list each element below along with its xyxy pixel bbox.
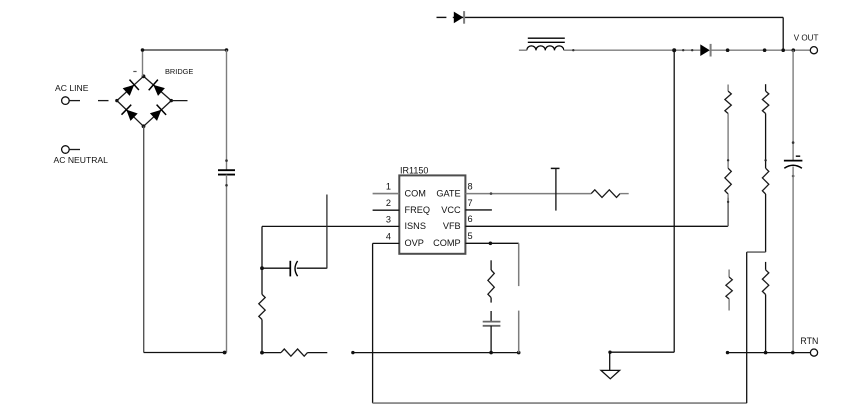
wire AC LINE stub: [69, 100, 80, 102]
pin 7 VCC stub: [465, 209, 492, 211]
wire Vout rail: [711, 49, 810, 51]
node ISNS junction: [260, 266, 264, 270]
pin 4 OVP wire: [373, 242, 400, 244]
svg-text:7: 7: [468, 198, 473, 208]
wire dash to bridge: [98, 100, 109, 102]
svg-text:IR1150: IR1150: [400, 166, 428, 176]
wire gate resistor stub: [620, 193, 629, 195]
capacitor C-comp: [490, 311, 492, 322]
polarity mark minus: [133, 71, 136, 73]
wire C-isns to stub: [297, 267, 327, 269]
svg-text:COM: COM: [405, 188, 426, 198]
op-amp U1 IR1150 box: [399, 175, 465, 253]
svg-text:3: 3: [386, 214, 391, 224]
svg-text:OVP: OVP: [405, 238, 424, 248]
wire DC+ rail: [143, 49, 227, 51]
wire COMP corner upper: [518, 243, 520, 286]
wire VFB corner: [727, 197, 729, 226]
svg-text:RTN: RTN: [800, 336, 818, 346]
svg-text:ISNS: ISNS: [405, 221, 426, 231]
wire bottom return rail: [373, 402, 747, 404]
wire top rail corner drop: [782, 17, 784, 50]
svg-text:GATE: GATE: [436, 188, 460, 198]
wire ISNS drop: [261, 226, 263, 268]
svg-text:AC NEUTRAL: AC NEUTRAL: [54, 155, 109, 165]
pin 3 ISNS wire: [262, 225, 399, 227]
svg-text:COMP: COMP: [433, 238, 461, 248]
wire cap to RTN: [792, 167, 794, 353]
resistor R-isns vertical: [261, 268, 263, 294]
pin 8 GATE wire: [465, 193, 591, 195]
resistor R-ovp2: [762, 168, 768, 194]
wire drain drop: [673, 50, 675, 352]
gate T electrode: [555, 169, 557, 211]
svg-text:VCC: VCC: [441, 205, 461, 215]
AC NEUTRAL terminal: [62, 146, 70, 154]
svg-text:2: 2: [386, 198, 391, 208]
bridge diode D3 (bottom-left): [126, 110, 137, 121]
wire Vout cap lead: [792, 50, 794, 160]
pin 6 VFB wire: [465, 225, 728, 227]
bridge diode D2 (right-top): [153, 85, 165, 96]
svg-text:AC LINE: AC LINE: [55, 83, 89, 93]
resistor R-ovp1: [765, 84, 767, 91]
svg-text:1: 1: [386, 182, 391, 192]
wire cap top lead: [226, 50, 228, 170]
wire inductor left lead: [519, 49, 527, 51]
svg-text:FREQ: FREQ: [405, 205, 431, 215]
wire to C-isns: [262, 267, 290, 269]
wire ground link: [610, 351, 675, 353]
svg-text:VFB: VFB: [443, 221, 461, 231]
wire COMP corner lower: [518, 311, 520, 353]
resistor R-ovp3: [765, 262, 767, 270]
bridge rectifier diamond: [117, 76, 144, 100]
bridge diode D1 (left-top): [123, 85, 135, 96]
ground: [609, 352, 611, 370]
diode D5 bypass: [454, 12, 464, 24]
svg-text:4: 4: [386, 231, 391, 241]
node R junction: [260, 351, 264, 355]
wire mid rail: [352, 352, 518, 354]
wire bridge right stub: [171, 100, 187, 102]
inductor L1 core lines: [528, 37, 565, 39]
resistor R-fb3 floating: [728, 270, 730, 278]
wire inductor to diode: [564, 49, 701, 51]
inductor L1 winding: [527, 46, 536, 50]
wire AC NEUTRAL stub: [69, 149, 80, 151]
capacitor C-out: [784, 160, 803, 162]
svg-text:V OUT: V OUT: [794, 34, 819, 43]
bridge diode D4 (bottom-right): [150, 110, 162, 121]
pin 2 FREQ stub: [373, 209, 400, 211]
wire RTN rail: [727, 352, 810, 354]
capacitor C-in: [218, 169, 235, 171]
svg-text:BRIDGE: BRIDGE: [165, 67, 193, 76]
wire DC- rail: [144, 352, 226, 354]
wire cap bottom lead: [226, 175, 228, 353]
resistor R-comp: [490, 260, 492, 270]
pin 5 COMP wire: [465, 242, 518, 244]
C-out plus mark: [796, 155, 800, 157]
AC LINE terminal: [62, 97, 70, 105]
wire vertical stub: [326, 195, 328, 269]
wire bridge top to rail: [142, 50, 144, 76]
wire OVP chain drop: [746, 252, 748, 403]
resistor R-isns horizontal: [262, 352, 281, 354]
resistor R-fb1: [727, 85, 729, 92]
wire OVP jog: [747, 251, 766, 253]
V OUT terminal: [810, 47, 817, 54]
wire bridge bottom drop: [143, 126, 145, 352]
resistor R-gate: [591, 190, 620, 198]
svg-text:5: 5: [468, 231, 473, 241]
RTN terminal: [810, 349, 817, 356]
pin 1 COM stub: [373, 193, 400, 195]
wire OVP drop: [372, 243, 374, 403]
diode D6 boost: [700, 44, 710, 56]
capacitor C-isns: [289, 261, 291, 277]
wire top bypass rail: [437, 16, 447, 18]
svg-text:6: 6: [468, 214, 473, 224]
svg-text:8: 8: [468, 182, 473, 192]
node drain junction: [672, 48, 676, 52]
resistor R-fb2: [725, 168, 731, 194]
